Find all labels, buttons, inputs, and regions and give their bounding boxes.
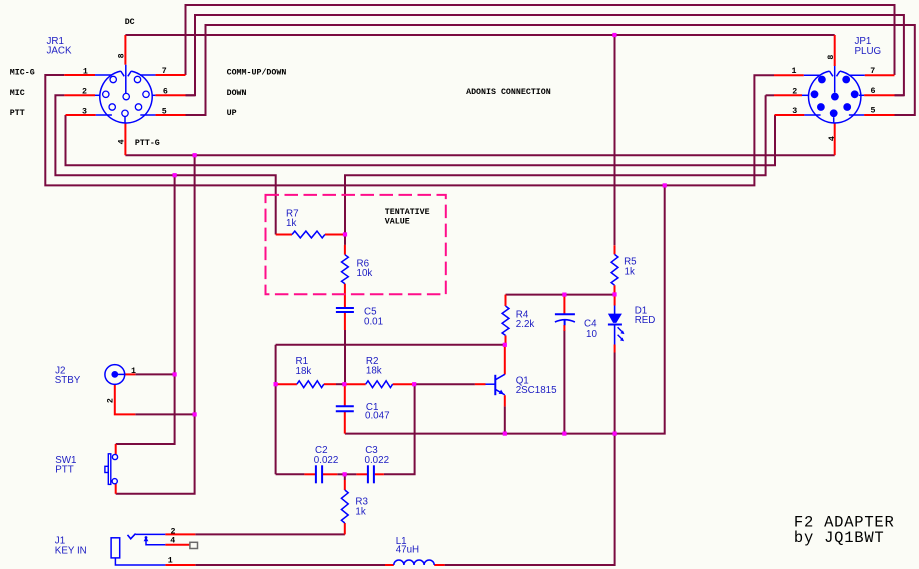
svg-text:ADONIS CONNECTION: ADONIS CONNECTION bbox=[466, 88, 551, 97]
svg-text:2: 2 bbox=[82, 87, 87, 96]
svg-text:STBY: STBY bbox=[55, 375, 81, 386]
svg-text:47uH: 47uH bbox=[396, 545, 419, 556]
svg-text:MIC: MIC bbox=[10, 89, 25, 98]
svg-text:VALUE: VALUE bbox=[385, 217, 410, 226]
svg-text:5: 5 bbox=[871, 107, 876, 116]
svg-text:7: 7 bbox=[162, 67, 167, 76]
svg-text:2SC1815: 2SC1815 bbox=[516, 385, 557, 396]
svg-text:2: 2 bbox=[171, 527, 176, 536]
svg-text:0.047: 0.047 bbox=[365, 410, 390, 421]
svg-text:PTT-G: PTT-G bbox=[135, 139, 160, 148]
svg-text:JACK: JACK bbox=[47, 46, 73, 57]
svg-text:by JQ1BWT: by JQ1BWT bbox=[794, 529, 885, 547]
svg-text:DC: DC bbox=[125, 18, 135, 27]
svg-text:1k: 1k bbox=[355, 506, 365, 517]
svg-text:PLUG: PLUG bbox=[855, 46, 882, 57]
svg-text:KEY IN: KEY IN bbox=[55, 545, 87, 556]
svg-text:4: 4 bbox=[170, 537, 175, 546]
svg-text:TENTATIVE: TENTATIVE bbox=[385, 208, 430, 217]
svg-text:COMM-UP/DOWN: COMM-UP/DOWN bbox=[227, 67, 287, 77]
svg-text:2: 2 bbox=[107, 398, 116, 403]
svg-text:18k: 18k bbox=[296, 366, 312, 377]
svg-text:4: 4 bbox=[118, 139, 127, 144]
svg-text:2: 2 bbox=[792, 88, 797, 97]
svg-text:PTT: PTT bbox=[10, 109, 25, 118]
svg-text:DOWN: DOWN bbox=[227, 89, 247, 98]
svg-text:UP: UP bbox=[227, 109, 237, 118]
svg-text:6: 6 bbox=[871, 87, 876, 96]
svg-text:0.01: 0.01 bbox=[364, 316, 383, 327]
svg-text:8: 8 bbox=[117, 53, 126, 58]
svg-text:1k: 1k bbox=[625, 266, 635, 277]
svg-text:2.2k: 2.2k bbox=[516, 319, 535, 330]
svg-text:10k: 10k bbox=[357, 268, 373, 279]
svg-text:8: 8 bbox=[827, 55, 836, 60]
svg-text:1: 1 bbox=[168, 556, 173, 565]
svg-text:1: 1 bbox=[131, 367, 136, 376]
svg-text:4: 4 bbox=[828, 136, 837, 141]
svg-text:1: 1 bbox=[83, 67, 88, 76]
svg-text:1k: 1k bbox=[286, 218, 296, 229]
svg-text:0.022: 0.022 bbox=[314, 455, 339, 466]
svg-text:1: 1 bbox=[792, 67, 797, 76]
svg-text:6: 6 bbox=[163, 88, 168, 97]
svg-text:3: 3 bbox=[82, 108, 87, 117]
svg-text:PTT: PTT bbox=[55, 465, 74, 476]
svg-text:10: 10 bbox=[586, 329, 597, 340]
svg-text:RED: RED bbox=[635, 315, 656, 326]
svg-text:3: 3 bbox=[792, 107, 797, 116]
svg-text:7: 7 bbox=[870, 67, 875, 76]
svg-text:5: 5 bbox=[162, 107, 167, 116]
svg-text:18k: 18k bbox=[366, 366, 382, 377]
svg-text:MIC-G: MIC-G bbox=[10, 68, 35, 77]
svg-text:0.022: 0.022 bbox=[365, 455, 390, 466]
